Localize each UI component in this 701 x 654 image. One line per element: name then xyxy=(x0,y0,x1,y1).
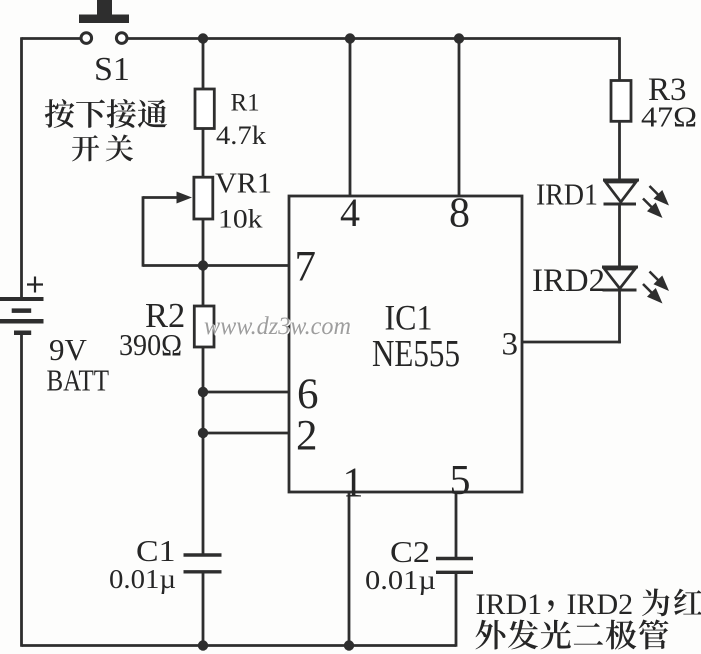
svg-text:IRD1: IRD1 xyxy=(476,588,543,621)
watermark www.dz3w.com xyxy=(204,313,352,341)
switch S1 left contact xyxy=(81,33,92,44)
wire pin2 horizontal xyxy=(203,432,289,435)
label Chinese 开关 (switch) xyxy=(72,135,133,162)
wire pin7 horizontal xyxy=(203,264,289,267)
svg-text:6: 6 xyxy=(297,371,319,418)
wire R3 branch top xyxy=(618,37,621,81)
svg-text:47Ω: 47Ω xyxy=(641,102,697,134)
wire R3 to IRD1 xyxy=(618,120,621,181)
op-amp/timer IC1 NE555 body xyxy=(289,196,522,492)
wire left rail upper (to battery +) xyxy=(20,37,23,299)
svg-text:5: 5 xyxy=(450,458,471,504)
node junction top rail / R1 xyxy=(198,33,208,43)
wire pin6 horizontal xyxy=(203,391,289,394)
wire pin8 branch xyxy=(458,39,461,197)
node junction pin2 xyxy=(198,428,208,438)
wire pin3 horizontal xyxy=(522,341,621,344)
svg-text:C2: C2 xyxy=(390,534,430,569)
battery long plate 1 xyxy=(0,297,44,301)
capacitor C2 bottom plate xyxy=(436,571,473,574)
wire C1 to bottom rail xyxy=(202,573,205,647)
svg-text:0.01µ: 0.01µ xyxy=(109,564,176,594)
wire IRD1 to IRD2 xyxy=(618,203,621,268)
LED IRD1 anode bar xyxy=(603,179,639,182)
resistor R1 xyxy=(195,89,214,129)
capacitor C1 bottom plate xyxy=(184,570,222,573)
LED IRD2 emission arrow upper xyxy=(650,272,670,292)
svg-text:10k: 10k xyxy=(218,205,263,234)
wire top rail left segment (battery + to switch S1) xyxy=(22,37,83,40)
node junction top rail / pin4 xyxy=(345,33,355,43)
LED IRD2 emission arrow lower xyxy=(643,284,663,304)
switch S1 button cap xyxy=(79,15,129,24)
switch S1 button stem xyxy=(97,0,112,16)
svg-text:8: 8 xyxy=(449,191,470,237)
capacitor C2 top plate xyxy=(436,557,473,560)
resistor R3 xyxy=(611,81,631,122)
note Chinese 为红 (are infrared...) xyxy=(642,589,701,617)
potentiometer VR1 body xyxy=(194,177,213,219)
svg-text:IRD2: IRD2 xyxy=(567,588,634,621)
node junction VR1 wiper / pin7 xyxy=(198,260,208,270)
wire pin4 branch xyxy=(349,39,352,197)
wire C2 to bottom rail xyxy=(455,572,458,647)
wire VR1 wiper vertical xyxy=(142,196,145,267)
wire R1 branch top xyxy=(202,39,205,91)
battery plus sign xyxy=(27,277,43,293)
wire VR1 wiper horizontal xyxy=(143,196,182,199)
svg-text:1: 1 xyxy=(343,461,364,507)
svg-text:www.dz3w.com: www.dz3w.com xyxy=(204,313,351,340)
wire R1 to VR1 xyxy=(202,128,205,179)
switch S1 right contact xyxy=(116,33,127,44)
wire VR1 to R2 (through node) xyxy=(202,218,205,307)
node junction bottom rail / C1 xyxy=(198,640,208,650)
wire pin5 to C2 xyxy=(455,492,458,558)
svg-text:BATT: BATT xyxy=(47,363,110,398)
svg-text:C1: C1 xyxy=(136,533,176,568)
node junction top rail / pin8 xyxy=(454,33,464,43)
LED IRD2 anode bar xyxy=(602,266,638,269)
svg-text:IRD2: IRD2 xyxy=(532,263,605,299)
note Chinese 外发光二极管 line 2 xyxy=(476,620,669,650)
svg-text:2: 2 xyxy=(296,413,318,460)
battery short plate 2 xyxy=(14,331,31,336)
svg-text:NE555: NE555 xyxy=(372,333,460,375)
LED IRD1 emission arrow lower xyxy=(643,199,663,219)
svg-text:3: 3 xyxy=(502,327,519,363)
battery short plate 1 xyxy=(12,308,32,313)
resistor R2 xyxy=(194,306,214,347)
svg-text:390Ω: 390Ω xyxy=(119,327,182,362)
wire bottom rail xyxy=(22,644,457,647)
LED IRD1 triangle xyxy=(606,182,637,202)
wire IRD2 down to pin3 level xyxy=(618,289,621,343)
note full-width comma xyxy=(548,600,554,612)
label Chinese 按下接通 (press to close) xyxy=(45,99,167,128)
svg-text:4.7k: 4.7k xyxy=(216,121,266,150)
LED IRD2 cathode bar xyxy=(603,289,637,292)
svg-text:7: 7 xyxy=(295,244,317,291)
wire pin1 to bottom rail xyxy=(348,492,351,647)
wire VR1 wiper to node xyxy=(143,264,203,267)
battery long plate 2 xyxy=(0,319,44,324)
svg-text:IRD1: IRD1 xyxy=(536,177,598,212)
svg-text:IC1: IC1 xyxy=(385,297,433,337)
potentiometer VR1 wiper arrowhead xyxy=(177,192,193,204)
wire left rail lower (battery - to bottom rail) xyxy=(20,333,23,647)
node junction pin6 xyxy=(198,387,208,397)
LED IRD2 triangle xyxy=(605,269,636,289)
wire R2 to C1 (through nodes 6,2) xyxy=(202,346,205,555)
svg-text:0.01µ: 0.01µ xyxy=(365,565,436,595)
LED IRD1 cathode bar xyxy=(604,203,637,206)
wire top rail from S1 to top-right corner xyxy=(126,37,620,40)
svg-text:VR1: VR1 xyxy=(215,169,272,200)
capacitor C1 top plate xyxy=(184,553,222,556)
svg-text:4: 4 xyxy=(340,190,360,235)
LED IRD1 emission arrow upper xyxy=(650,186,670,206)
svg-text:S1: S1 xyxy=(94,51,130,88)
svg-text:R1: R1 xyxy=(231,90,260,117)
node junction bottom rail / pin1 xyxy=(344,640,354,650)
